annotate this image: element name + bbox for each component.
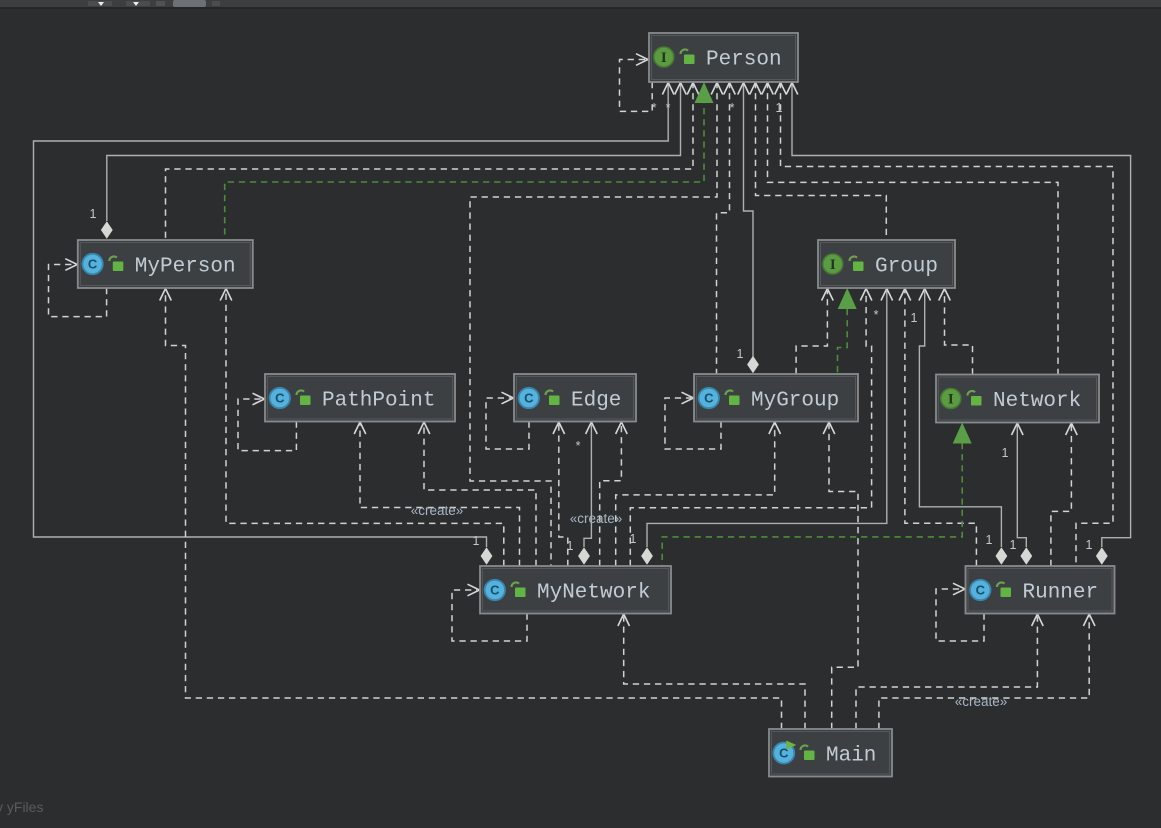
arrowhead into PathPoint bottom x=424 [418,422,430,434]
svg-text:1: 1 [911,311,918,325]
class PathPoint [265,374,455,422]
svg-text:1: 1 [1010,538,1017,552]
composition MyNetwork-Person long left line [34,82,669,547]
svg-text:I: I [948,392,954,408]
arrowhead into Group bottom x=924.7 [919,289,931,301]
dependency MyNetwork-Edge line a [559,425,568,567]
svg-text:MyGroup: MyGroup [751,390,839,413]
arrowhead into PathPoint left (self loop) [253,393,265,405]
dependency Runner-Person line [781,82,1114,566]
realization triangle into Network bottom [953,423,972,444]
realization triangle into Group bottom [838,288,857,309]
svg-text:Network: Network [993,390,1081,413]
arrowhead into Person bottom x=729.5 [724,83,736,95]
dependency MyGroup-Group line [796,291,827,374]
self-dependency MyGroup loop [665,398,721,449]
svg-text:Runner: Runner [1023,582,1099,605]
composition Runner-Person line [792,82,1131,547]
arrowhead into Group bottom x=944.5 [939,289,951,301]
arrowhead into PathPoint bottom x=360 [354,422,366,434]
svg-text:1: 1 [986,533,993,547]
arrowhead into MyPerson bottom x=165.5 [160,289,172,301]
svg-text:C: C [704,391,714,406]
realization MyGroup-Group green line [838,309,848,374]
aggregation diamond at MyNetwork top x=584 [578,547,590,565]
create dependency Main-MyNetwork line [624,617,805,730]
svg-text:C: C [524,391,534,406]
arrowhead into Runner bottom x=1089.2 [1083,614,1095,626]
class MyGroup [694,374,858,422]
arrowhead into Person left (self loop) [636,54,648,66]
arrowhead into Edge bottom x=591.4 [586,422,598,434]
composition MyNetwork-Group line [647,291,887,547]
svg-text:*: * [652,101,657,115]
svg-text:1: 1 [776,101,783,115]
dependency MyNetwork-MyGroup line [616,425,775,567]
arrowhead into Person bottom x=693 [687,83,699,95]
class Edge [514,374,636,422]
arrowhead into Runner bottom x=1037.4 [1032,614,1044,626]
svg-text:«create»: «create» [411,503,464,518]
top toolbar strip [0,0,1161,9]
arrowhead into MyGroup left (self loop) [682,392,694,404]
self-dependency PathPoint loop [238,399,296,451]
realization MyPerson-Person green line [225,97,704,240]
arrowhead into Group bottom x=866.1 [860,289,872,301]
arrowhead into MyNetwork left (self loop) [468,584,480,596]
arrowhead into Person bottom x=717 [711,83,723,95]
aggregation MyNetwork-Edge line [584,425,591,548]
svg-text:1: 1 [90,207,97,221]
self-dependency Runner loop [936,589,984,641]
svg-text:C: C [88,257,98,272]
dependency MyNetwork-Edge line b [600,425,622,567]
svg-text:1: 1 [737,347,744,361]
svg-text:MyPerson: MyPerson [135,256,236,279]
dependency MyNetwork-MyPerson line [226,291,504,566]
arrowhead into Group bottom x=886.8 [881,289,893,301]
svg-text:1: 1 [630,532,637,546]
arrowhead into Person bottom x=680.5 [675,83,687,95]
class Runner [966,566,1115,614]
composition diamond at MyNetwork top x=486.5 [481,547,493,565]
svg-text:C: C [275,391,285,406]
arrowhead into Edge bottom x=621.4 [616,422,628,434]
composition diamond at MyNetwork top x=647 [641,547,653,565]
svg-text:«create»: «create» [955,694,1008,709]
svg-text:MyNetwork: MyNetwork [537,582,650,605]
self-dependency MyPerson loop [49,265,107,317]
svg-text:1: 1 [1002,446,1009,460]
arrowhead into Edge bottom x=558.8 [553,422,565,434]
arrowhead into Person bottom x=743.5 [738,83,750,95]
svg-text:Person: Person [706,49,782,72]
svg-text:Group: Group [875,256,938,279]
create dependency MyNetwork-PathPoint line [360,425,520,567]
svg-text:1: 1 [567,539,574,553]
arrowhead into Person bottom x=668.2 [662,83,674,95]
dependency Network-Group line [945,291,973,375]
composition diamond at MyGroup top [747,356,759,374]
arrowhead into Person bottom x=780.5 [775,83,787,95]
svg-text:1: 1 [1086,538,1093,552]
composition MyPerson-Person line [107,82,681,221]
self-dependency MyNetwork loop [452,590,527,641]
arrowhead into Network bottom x=1017.3 [1012,423,1024,435]
svg-text:I: I [661,50,667,66]
svg-text:Edge: Edge [571,390,621,413]
dependency Main-Runner line [856,617,1037,730]
interface Person [649,33,798,82]
arrowhead into MyGroup bottom x=774.7 [769,422,781,434]
dependency Runner-Network line [1051,425,1072,566]
arrowhead into MyNetwork bottom x=623.7 [618,614,630,626]
arrowhead into MyPerson left (self loop) [65,259,77,271]
composition diamond at Runner top x=1101.8 [1096,547,1108,565]
dependency Network-Person line [768,82,1059,375]
dependency Main-MyPerson line [166,291,782,729]
create dependency Main-MyGroup line [829,425,858,730]
arrowhead into MyGroup bottom x=829 [823,422,835,434]
arrowhead into Edge left (self loop) [502,392,514,404]
arrowhead into MyPerson bottom x=226 [220,289,232,301]
interface Group [818,240,955,288]
svg-text:*: * [666,101,671,115]
svg-text:*: * [730,101,735,115]
dependency MyNetwork-Group line [630,291,871,566]
svg-text:*: * [576,439,581,453]
realization triangle into Person bottom [695,82,714,103]
arrowhead into Group bottom x=827.4 [822,289,834,301]
create dependency Main-Runner line [879,617,1089,730]
svg-text:«create»: «create» [570,511,623,526]
composition Runner-Group line [919,291,1001,547]
svg-text:1: 1 [473,534,480,548]
interface Network [936,375,1099,423]
class Main [769,729,892,777]
self-dependency Edge loop [486,398,529,449]
composition Runner-Network line [1017,425,1026,547]
composition MyGroup-Person line [744,82,754,357]
arrowhead into Person bottom x=755.5 [750,83,762,95]
dependency MyNetwork-Person line [470,82,717,566]
arrowhead into Person bottom x=767.5 [762,83,774,95]
composition diamond at Runner top x=1026.3 [1020,547,1032,565]
class MyNetwork [480,566,671,614]
svg-text:I: I [830,257,836,273]
arrowhead into Runner left (self loop) [953,583,965,595]
svg-text:*: * [874,308,879,322]
dependency MyGroup-Person line [717,82,730,374]
realization MyNetwork-Network green line [662,443,962,566]
dependency MyPerson-Person line [166,82,694,240]
dependency Group-Person line [756,82,887,240]
svg-text:PathPoint: PathPoint [322,390,435,413]
svg-text:C: C [490,583,500,598]
class MyPerson [78,240,253,288]
arrowhead into Network bottom x=1071.4 [1066,423,1078,435]
dependency Runner-Group line [905,291,977,566]
arrowhead into Person bottom x=795 [786,83,798,95]
svg-text:C: C [976,583,986,598]
self-dependency Person loop [620,60,653,112]
svg-text:Main: Main [826,745,876,768]
dependency MyNetwork-PathPoint line [424,425,536,567]
svg-text:y yFiles: y yFiles [0,799,43,815]
arrowhead into Group bottom x=904.9 [899,289,911,301]
composition diamond at Runner top x=1001.4 [996,547,1008,565]
composition diamond at MyPerson top [101,221,113,239]
